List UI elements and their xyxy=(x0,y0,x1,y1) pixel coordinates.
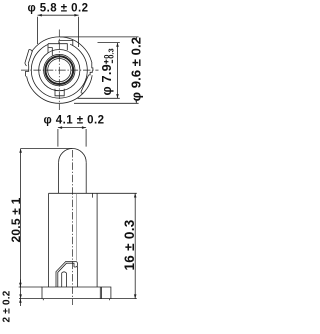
right lug outer line xyxy=(81,75,89,93)
small box left in slot xyxy=(48,48,52,56)
dim phi4.1 extension lines xyxy=(58,129,86,147)
flange xyxy=(42,287,111,299)
dim 2 dimension line w outside arrows xyxy=(19,280,21,307)
centerline vertical (top view) xyxy=(58,30,60,111)
erase shell circle arc behind top slot xyxy=(49,42,71,45)
dim phi5.8: dimension line with arrows xyxy=(38,14,79,16)
outer circle phi9.6 xyxy=(26,37,92,103)
terminal inner xyxy=(58,263,74,287)
glass dome xyxy=(59,149,87,163)
ring outer thin circle xyxy=(44,54,75,85)
inner circle xyxy=(48,59,71,82)
erase outer circle arc at left lug xyxy=(26,52,32,77)
dim 20.5 top extension xyxy=(21,148,73,150)
body top edge xyxy=(49,192,98,194)
svg-text:φ 7.9: φ 7.9 xyxy=(99,64,114,96)
bold circle (bulb hole) xyxy=(45,56,73,84)
svg-text:φ 5.8 ± 0.2: φ 5.8 ± 0.2 xyxy=(27,3,88,15)
centerline vertical (side view) xyxy=(71,150,73,305)
dim 20.5 dimension line w arrows xyxy=(20,149,22,299)
svg-text:2 ± 0.2: 2 ± 0.2 xyxy=(2,290,13,322)
dim phi9.6 extension lines xyxy=(60,37,139,103)
left lug bottom steps xyxy=(25,63,29,76)
erase outer circle arc at right tab xyxy=(90,62,95,75)
dim 16 bottom extension xyxy=(111,298,137,300)
tolerance -0.3 lower xyxy=(111,60,113,63)
terminal slot xyxy=(62,272,67,287)
body top notch xyxy=(91,193,93,197)
right tab steps xyxy=(89,62,93,75)
terminal outer xyxy=(56,261,78,287)
body seam line xyxy=(75,193,77,260)
svg-text:0.3: 0.3 xyxy=(107,48,116,58)
dim phi5.8 extension lines xyxy=(38,17,79,47)
body sides xyxy=(49,193,98,287)
dim phi7.9 dimension line w arrows xyxy=(117,43,119,99)
text phi7.9 with tolerance xyxy=(99,64,114,96)
svg-text:16 ± 0.3: 16 ± 0.3 xyxy=(122,219,137,270)
flange key verticals xyxy=(100,287,101,299)
slot block right (raised key) xyxy=(59,40,73,45)
dim 20.5 bottom extension xyxy=(19,298,42,300)
svg-text:20.5 ± 1: 20.5 ± 1 xyxy=(9,197,23,242)
dim phi7.9 extension lines xyxy=(78,43,120,99)
shell circle phi7.9 xyxy=(31,42,87,98)
mid circle phi5.8 xyxy=(39,50,80,91)
centerline horizontal (top view) xyxy=(21,69,99,71)
dim phi9.6 dimension line w arrows xyxy=(135,37,137,103)
svg-text:φ 9.6 ± 0.2: φ 9.6 ± 0.2 xyxy=(128,37,143,101)
white backing for phi9.6 text (line broken behind) xyxy=(131,39,145,100)
dim 16 top extension xyxy=(97,192,137,194)
dim phi4.1 dimension line w arrows xyxy=(58,127,86,129)
dim 2 extension lines xyxy=(19,286,42,288)
flange bottom feet xyxy=(43,299,109,301)
bottom slot box xyxy=(55,89,64,96)
left lug double line xyxy=(25,49,33,63)
slot block wide xyxy=(48,44,67,53)
svg-text:φ 4.1 ± 0.2: φ 4.1 ± 0.2 xyxy=(43,114,104,126)
glass sides xyxy=(59,162,87,193)
dim 16 dimension line w arrows xyxy=(134,193,136,298)
tolerance +0 upper xyxy=(104,60,108,64)
